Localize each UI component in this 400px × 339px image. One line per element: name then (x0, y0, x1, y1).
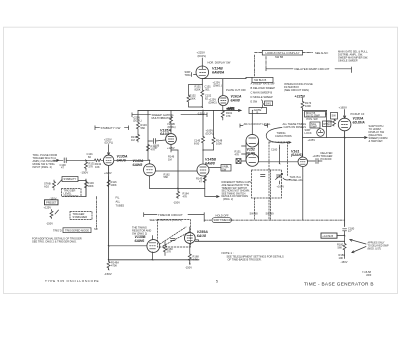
svg-text:47K: 47K (226, 114, 231, 118)
sawtooth output arrow line (303, 137, 367, 139)
wire to grid V135A (68, 159, 95, 161)
dashed vertical SW B8 (254, 198, 256, 220)
dashed box trigger level centering (62, 189, 82, 197)
svg-text:6AW8A: 6AW8A (212, 70, 225, 74)
svg-text:C160: C160 (271, 148, 278, 152)
svg-text:PICKUP CF: PICKUP CF (351, 112, 365, 116)
capacitor C130 (64, 158, 67, 163)
svg-text:(DCPL): (DCPL) (206, 132, 215, 136)
resistor R140 (170, 117, 173, 134)
dashed vertical right timing (287, 142, 289, 176)
svg-text:B: B (257, 110, 259, 114)
wire +165V into V183A (343, 110, 345, 119)
svg-text:100K: 100K (190, 96, 196, 100)
wire V145B plate up (202, 111, 204, 137)
junction -150V V259A (189, 263, 190, 264)
svg-text:100K: 100K (111, 183, 117, 187)
stability branch vertical (85, 179, 87, 197)
dashed switch gang line (204, 219, 344, 221)
svg-text:-150V: -150V (104, 272, 112, 276)
dashed gang line (96, 197, 98, 230)
svg-text:5: 5 (216, 280, 218, 284)
wire stub below R161 (222, 117, 224, 120)
tube V114B (196, 66, 209, 79)
wire plate V114B to V161A and switch (202, 77, 252, 95)
annotation arrows delayed trigger (350, 239, 366, 253)
pot preset (50, 210, 59, 219)
thin line to switch row (302, 176, 304, 220)
svg-text:SEE SW DETAILS (DWG 2): SEE SW DETAILS (DWG 2) (150, 218, 183, 222)
svg-text:6AU8: 6AU8 (160, 132, 169, 136)
svg-text:6AU8: 6AU8 (197, 234, 206, 238)
wire +225V row right segment (303, 109, 327, 111)
svg-text:SW 5B: SW 5B (275, 55, 283, 59)
svg-text:TIME - BASE GENERATOR B: TIME - BASE GENERATOR B (304, 281, 374, 286)
svg-text:SW: SW (332, 114, 337, 118)
wire grid V135B from bus (108, 245, 146, 246)
svg-text:B DELAYED SWEEP: B DELAYED SWEEP (251, 86, 276, 90)
neon B167 (317, 129, 325, 137)
svg-text:E SW: E SW (251, 100, 258, 104)
dashed diagonal 2 (163, 232, 189, 246)
wire box to bus (337, 235, 345, 237)
svg-text:POS. SW: POS. SW (307, 117, 319, 121)
svg-text:TRIGGERED MODE: TRIGGERED MODE (65, 228, 89, 232)
svg-text:HOR. DISPLAY SW: HOR. DISPLAY SW (208, 60, 231, 64)
resistor R135 column (137, 135, 140, 143)
svg-text:27K: 27K (167, 250, 172, 254)
box HORIZONTAL DISPLAY (262, 50, 302, 55)
wire V161 cathode right (308, 159, 322, 164)
wire below gating tube (171, 144, 178, 152)
svg-text:+125V: +125V (167, 146, 175, 150)
resistor R133 column (137, 110, 140, 134)
svg-text:SW B8: SW B8 (250, 211, 259, 215)
pot stability (53, 180, 63, 191)
resistor R168 (188, 254, 191, 265)
svg-text:+GATE B: +GATE B (322, 234, 333, 238)
cross coupling wire (156, 170, 198, 172)
svg-text:DELAYED RAMP CIRCUIT: DELAYED RAMP CIRCUIT (295, 67, 330, 71)
svg-text:4.7: 4.7 (348, 229, 352, 233)
svg-text:SWP: SWP (311, 125, 317, 129)
svg-text:PANEL ADJ: PANEL ADJ (290, 178, 304, 182)
svg-text:6AW6: 6AW6 (135, 239, 146, 243)
svg-text:(6AU6): (6AU6) (291, 153, 303, 157)
svg-text:STABILITY CW: STABILITY CW (101, 126, 121, 130)
bracket sweep gating multivibrator (132, 113, 207, 117)
dashed diagonal 1 (160, 227, 186, 244)
box single sweep (310, 122, 320, 128)
svg-text:820K: 820K (195, 87, 201, 91)
svg-text:JWF: JWF (366, 273, 372, 277)
svg-text:CAPS ON PANELS: CAPS ON PANELS (284, 125, 307, 129)
svg-text:STABILITY: STABILITY (64, 177, 77, 181)
wire bus down (81, 189, 86, 197)
svg-text:100K: 100K (305, 104, 311, 108)
svg-text:CAPACITORS: CAPACITORS (275, 134, 292, 138)
bottom bus wire (109, 259, 199, 261)
wire V183A cathode to bus (344, 131, 346, 227)
resistor R161 (221, 111, 224, 117)
tube V135B (147, 240, 160, 253)
svg-text:6AW8: 6AW8 (133, 163, 143, 167)
svg-text:SR: SR (94, 227, 98, 231)
legend header box (252, 77, 273, 82)
svg-text:(DCPL): (DCPL) (105, 141, 114, 145)
junction dots divider (202, 84, 203, 108)
legend bracket and SW1 box (262, 100, 264, 108)
resistor R103 on bus (85, 182, 88, 190)
box PRESET (45, 200, 59, 205)
curved annotation arrow timing caps (266, 128, 291, 144)
wire to -150V (201, 97, 203, 107)
svg-text:-150V: -150V (341, 260, 348, 264)
svg-text:(SEE CIRCUIT DWG): (SEE CIRCUIT DWG) (284, 88, 309, 92)
svg-text:TUBES: TUBES (116, 204, 125, 208)
bracket adj lockout level (240, 124, 268, 128)
svg-text:NOTE 1 :: NOTE 1 : (222, 251, 234, 255)
vertical to gating stage (147, 110, 149, 160)
wire below V161A (222, 106, 224, 112)
dashed timing cap box top (269, 141, 288, 143)
resistor R143 (202, 137, 205, 165)
svg-text:56K: 56K (141, 126, 146, 130)
resistor R137 on vertical (147, 145, 150, 151)
wire gate output arrow (205, 189, 219, 198)
svg-text:+165V: +165V (313, 154, 321, 158)
svg-text:SEE TRIG. DWG 2 & TRIGGER DWG.: SEE TRIG. DWG 2 & TRIGGER DWG. (32, 240, 77, 244)
svg-text:6AN8: 6AN8 (231, 98, 240, 102)
svg-text:C MAIN SWEEP B: C MAIN SWEEP B (251, 91, 273, 95)
tube V161 (298, 157, 308, 167)
tube V145A (144, 164, 156, 176)
svg-text:TIME/CM CIRCUIT: TIME/CM CIRCUIT (158, 213, 183, 217)
svg-text:FIL.: FIL. (116, 196, 121, 200)
junction dot (202, 150, 204, 151)
svg-text:ALL: ALL (116, 200, 121, 204)
svg-text:100K: 100K (88, 184, 94, 188)
grid stubs V152 left (242, 146, 247, 154)
box reset (323, 121, 332, 127)
wire bus to V161 plate (302, 108, 304, 157)
svg-text:4.7K: 4.7K (193, 257, 199, 261)
junction loop (178, 188, 179, 189)
svg-text:47K: 47K (235, 152, 240, 156)
vertical to multivib bottom (177, 150, 179, 189)
trimmer cap C160C (276, 174, 283, 180)
svg-text:100K: 100K (216, 141, 222, 145)
dash-dot stub below display box (265, 57, 267, 67)
junction -150V (108, 269, 109, 270)
vertical x213 divider (213, 110, 215, 137)
resistor R145 cathode (203, 176, 206, 182)
svg-text:ADJ: ADJ (44, 184, 50, 188)
wire box to corner (326, 110, 327, 137)
resistor R131 to -150V (85, 160, 88, 170)
tube V152 dual envelope (246, 134, 259, 147)
svg-text:.001: .001 (205, 87, 211, 91)
svg-text:470K: 470K (111, 263, 117, 267)
wire V135B top (152, 236, 154, 240)
tube V135A gating (166, 134, 177, 145)
box delayed trig (321, 233, 337, 238)
svg-text:LOCK: LOCK (305, 131, 312, 135)
dashed vertical SW B9 (270, 170, 272, 220)
resistor R180 below bus (343, 241, 346, 258)
dashed timing box bottom (158, 220, 191, 248)
svg-text:+165V: +165V (277, 185, 285, 189)
svg-text:SW1: SW1 (266, 102, 272, 106)
branch divider R151 (187, 85, 202, 108)
junction timing caps (279, 148, 280, 165)
svg-text:-150V: -150V (50, 196, 57, 200)
capacitor C136 coupling (148, 139, 166, 144)
pointer curve panel adj (283, 178, 290, 180)
junction dots on +225V row (203, 110, 223, 111)
svg-text:SEE ALSO:: SEE ALSO: (315, 51, 329, 55)
svg-text:SW B9: SW B9 (266, 211, 275, 215)
wire +225V feed to V114B (201, 58, 203, 66)
svg-text:56K: 56K (338, 245, 343, 249)
svg-text:10K: 10K (95, 165, 100, 169)
right vertical +225V branch (108, 177, 110, 181)
box TRIGGERED MODE (63, 228, 91, 233)
svg-text:A SWEEP RATE SW: A SWEEP RATE SW (251, 82, 276, 86)
dash-dot link from HORIZONTAL DISPLAY box (254, 55, 256, 76)
dashed vertical left timing (268, 142, 270, 220)
svg-text:MULTIVIBRATOR: MULTIVIBRATOR (152, 116, 173, 120)
svg-text:& SWP DET.: & SWP DET. (369, 139, 384, 143)
svg-text:HORIZONTAL DISPLAY: HORIZONTAL DISPLAY (266, 51, 300, 55)
tube V183A (338, 118, 351, 131)
capacitor on right bus (343, 229, 347, 242)
multivib bottom loop (150, 176, 205, 189)
wire V135B cathode (152, 252, 153, 260)
bracket stability (95, 126, 129, 130)
resistor R149A (107, 260, 110, 270)
svg-text:8-50: 8-50 (194, 141, 200, 145)
svg-text:OF TIME-BASE B TRIGGER.: OF TIME-BASE B TRIGGER. (228, 257, 262, 261)
wire V145A top (149, 160, 151, 164)
svg-text:(DCPL): (DCPL) (133, 119, 142, 123)
svg-text:ADJ LOCKOUT LEVEL: ADJ LOCKOUT LEVEL (244, 122, 271, 126)
wire plate V135A right (114, 159, 150, 161)
svg-text:SINGLE SWEEP.: SINGLE SWEEP. (338, 59, 358, 63)
dashed timing rect center (252, 170, 282, 198)
wire V259A top (189, 227, 191, 233)
long left bus from V135A cathode (108, 166, 110, 260)
svg-text:TRIG'D: TRIG'D (53, 229, 62, 233)
cap C160B (261, 175, 266, 177)
wire plate V135A gating tube up (170, 110, 172, 116)
box +GATE B (249, 108, 267, 114)
svg-text:(6U8): (6U8) (246, 151, 256, 155)
tube V145B (197, 164, 209, 176)
tube V259A (184, 233, 195, 244)
resistor R132 series (95, 159, 104, 162)
svg-text:-150V: -150V (173, 201, 180, 205)
tube V135A (103, 155, 113, 165)
border frame (4, 27, 398, 293)
box rst stab right (331, 113, 338, 120)
svg-text:-150V: -150V (46, 221, 53, 225)
resistor R160 (164, 241, 167, 256)
junction left bus bottom (108, 259, 109, 260)
capacitor in timing box (171, 239, 176, 241)
wire join (203, 149, 214, 151)
tube V161A (218, 96, 228, 106)
svg-text:1M: 1M (168, 157, 172, 161)
bracket time/cm circuit (144, 213, 205, 222)
box hold off right of V145B (209, 167, 221, 169)
resistor R184 (333, 120, 336, 126)
svg-text:SW: SW (222, 167, 227, 171)
svg-text:D SINGLE SWEEP: D SINGLE SWEEP (251, 95, 273, 99)
svg-text:TRIG: TRIG (185, 73, 191, 77)
svg-text:+165V: +165V (308, 138, 316, 142)
junction (149, 160, 150, 161)
wire V259A plate to bus (195, 240, 198, 242)
svg-text:INPUT (DWG. 2): INPUT (DWG. 2) (33, 165, 53, 169)
junction sawtooth line (302, 137, 304, 138)
+225V bus vertical (302, 98, 304, 102)
wire V161 bottom (302, 167, 304, 176)
svg-text:10K: 10K (339, 256, 344, 260)
svg-text:6AU6: 6AU6 (117, 158, 127, 162)
svg-text:1M: 1M (131, 138, 135, 142)
svg-text:PICKOFF: PICKOFF (321, 157, 333, 161)
svg-text:47K: 47K (183, 194, 188, 198)
box STABILITY (62, 177, 78, 182)
svg-text:(DWG. 2): (DWG. 2) (223, 198, 233, 201)
svg-text:HOLD OFF: HOLD OFF (216, 214, 230, 218)
resistor R148 (212, 138, 215, 151)
dashed box trigger stabilizer (70, 212, 92, 220)
svg-text:+125V: +125V (44, 205, 52, 209)
svg-text:6DJ8/A: 6DJ8/A (353, 120, 366, 124)
svg-text:TYPE 535 OSCILLOSCOPE: TYPE 535 OSCILLOSCOPE (45, 279, 99, 283)
svg-text:(DWG): (DWG) (209, 101, 217, 105)
svg-text:PRESET: PRESET (46, 201, 57, 205)
svg-text:(DCPL): (DCPL) (198, 54, 207, 58)
svg-text:PLATE CUT OFF: PLATE CUT OFF (226, 88, 246, 92)
bracket delayed ramp circuit (266, 67, 352, 73)
junction right bus (344, 235, 345, 236)
solid node line timing (279, 145, 281, 164)
long bottom bus (195, 240, 344, 242)
resistor R164 (177, 189, 180, 199)
wire V259A cathode (189, 243, 191, 254)
resistor R116 (107, 180, 110, 186)
wire +225V into V135A (107, 145, 109, 156)
input wire left (53, 159, 63, 161)
box mult delayed sweep (305, 111, 326, 117)
connector sweep/trig input left (192, 73, 197, 77)
wire +225V row across multivib (138, 110, 241, 112)
connector plug left of V152 (236, 159, 241, 164)
V152 internals (249, 138, 256, 163)
svg-text:+165V: +165V (339, 106, 348, 110)
junction input (86, 160, 87, 161)
wire stability to bus (78, 180, 87, 181)
svg-text:6AW8: 6AW8 (205, 161, 215, 165)
wire V152 top (251, 110, 253, 134)
svg-text:-150V: -150V (185, 266, 192, 270)
svg-text:27K: 27K (89, 164, 94, 168)
svg-text:(MOD. LIST): (MOD. LIST) (368, 247, 382, 250)
wire cathode V114B down (201, 79, 203, 90)
svg-text:SWP TIME/CM: SWP TIME/CM (214, 218, 232, 222)
svg-text:CENTERING: CENTERING (64, 194, 79, 198)
junction dot sawtooth (344, 137, 345, 138)
svg-text:(DWG.): (DWG.) (213, 84, 222, 88)
svg-text:STABILIZER: STABILIZER (73, 215, 88, 219)
oval time/cm switch (212, 218, 232, 223)
resistor R152 (201, 90, 204, 97)
svg-text:+225V: +225V (295, 95, 306, 99)
wire V152 to V161 grid (259, 161, 298, 163)
svg-text:+225V: +225V (104, 171, 112, 175)
svg-text:1M: 1M (326, 122, 330, 126)
svg-text:56K: 56K (164, 175, 169, 179)
svg-text:-150V: -150V (81, 171, 89, 175)
resistor R173 (301, 102, 304, 108)
svg-text:+GATE: +GATE (227, 107, 235, 110)
wire +165V stub (279, 181, 281, 184)
